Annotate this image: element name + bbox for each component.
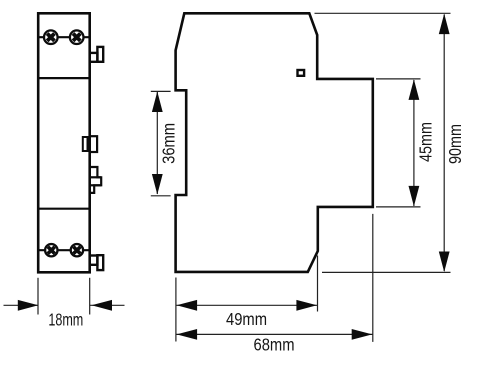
45mm extension line bottom	[376, 206, 421, 208]
49mm arrow right (points right)	[296, 300, 317, 311]
front view upper divider	[38, 77, 89, 79]
mid-right tab	[90, 136, 97, 152]
36mm arrow bottom (points down)	[152, 174, 163, 195]
18mm dimension line right segment	[90, 304, 125, 306]
screw bottom-right	[70, 243, 84, 257]
49mm extension line right	[317, 256, 319, 312]
svg-text:36mm: 36mm	[159, 123, 179, 164]
68mm arrow right (points right)	[352, 329, 373, 340]
front view top terminal line	[38, 36, 89, 38]
18mm arrow right (points left)	[92, 300, 113, 311]
stepped clip internal line 1	[90, 176, 102, 178]
90mm extension line top	[315, 12, 451, 14]
45mm arrow bottom (points down)	[409, 186, 420, 207]
top-right terminal tab	[90, 47, 104, 62]
45mm arrow top (points up)	[409, 79, 420, 100]
68mm extension line right	[372, 214, 374, 342]
18mm extension line left	[37, 278, 39, 315]
svg-text:45mm: 45mm	[416, 122, 436, 162]
90mm dimension line	[443, 15, 445, 272]
36mm extension line bottom	[151, 195, 171, 197]
screw top-left	[43, 30, 58, 45]
49mm and 68mm extension line left	[175, 278, 177, 342]
90mm arrow top (points up)	[439, 14, 450, 34]
screw bottom-left	[44, 243, 58, 257]
18mm extension line right	[89, 278, 91, 315]
screw top-right	[69, 30, 84, 45]
68mm dimension line	[176, 333, 373, 335]
svg-text:18mm: 18mm	[48, 310, 83, 330]
36mm dimension line	[156, 92, 158, 194]
90mm extension line bottom	[322, 271, 451, 273]
front view body outline	[38, 13, 89, 272]
36mm extension line top	[151, 90, 171, 92]
svg-text:49mm: 49mm	[226, 310, 267, 330]
45mm dimension line	[413, 80, 415, 206]
side view small window	[298, 70, 305, 76]
stepped clip internal line 2	[90, 184, 102, 186]
mid small slot inside body	[83, 137, 88, 151]
front view bottom terminal line	[38, 249, 89, 251]
90mm arrow bottom (points down)	[439, 252, 450, 273]
front view lower divider	[38, 208, 89, 210]
49mm dimension line	[176, 304, 318, 306]
18mm arrow left (points right)	[18, 300, 39, 311]
svg-text:90mm: 90mm	[445, 124, 465, 164]
68mm arrow left (points left)	[177, 329, 198, 340]
49mm arrow left (points left)	[177, 300, 198, 311]
stepped clip upper	[90, 167, 102, 193]
36mm arrow top (points up)	[152, 92, 163, 113]
45mm extension line top	[376, 78, 421, 80]
svg-text:68mm: 68mm	[254, 335, 295, 355]
bottom-right terminal tab	[90, 255, 104, 270]
18mm dimension line left segment	[4, 304, 39, 306]
side view profile outline	[176, 13, 373, 272]
